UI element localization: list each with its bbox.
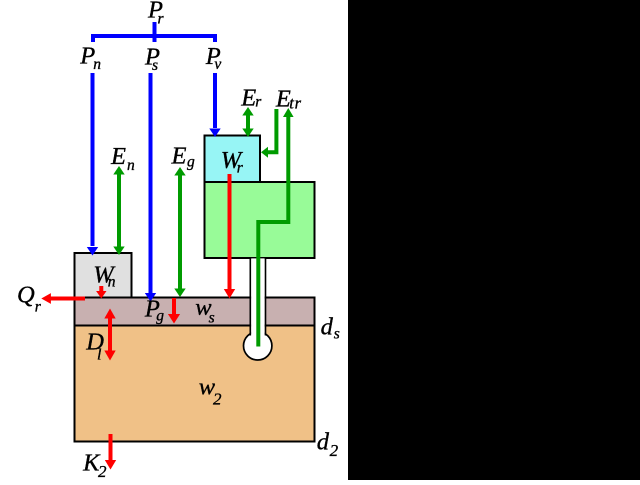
vegetation box (light green) — [205, 182, 315, 258]
svg-text:2: 2 — [330, 441, 339, 460]
Pv blue arrow — [213, 73, 217, 128]
green elbow into Wr box — [267, 109, 276, 152]
soil layer ws (mauve) — [75, 298, 315, 326]
D1 red double arrow — [108, 317, 112, 352]
blue bracket horizontal — [91, 34, 217, 38]
svg-text:v: v — [214, 56, 221, 73]
svg-text:l: l — [97, 347, 102, 364]
root tube right wall — [265, 258, 267, 336]
svg-text:2: 2 — [213, 389, 222, 408]
svg-text:2: 2 — [98, 462, 107, 480]
svg-text:Q: Q — [17, 282, 35, 309]
svg-text:r: r — [35, 299, 42, 316]
bracket middle stub — [153, 36, 157, 42]
svg-text:g: g — [187, 154, 195, 171]
Er double arrow — [246, 113, 250, 130]
Eg double arrow — [178, 174, 182, 290]
En double arrow — [117, 173, 121, 248]
red arrow from Wr down to ws — [228, 174, 232, 290]
svg-text:E: E — [240, 85, 256, 112]
svg-text:r: r — [158, 11, 165, 28]
Qr red arrow (left) — [51, 297, 86, 301]
root bulb circle — [244, 332, 272, 360]
arrowhead into Wr (left) — [261, 147, 268, 158]
interception store box Wr (cyan) — [205, 136, 261, 183]
svg-text:d: d — [321, 314, 334, 341]
svg-text:E: E — [110, 143, 126, 170]
small red arrow below Wn — [99, 286, 103, 291]
svg-text:n: n — [127, 157, 135, 174]
svg-text:g: g — [156, 308, 164, 325]
svg-text:d: d — [317, 429, 330, 456]
black side panel — [348, 0, 640, 480]
green transpiration path from root bulb up to Etr arrow — [258, 116, 288, 347]
bracket left stub — [91, 36, 95, 42]
svg-text:tr: tr — [289, 93, 302, 112]
svg-text:s: s — [152, 57, 158, 74]
K2 red arrow — [109, 434, 113, 460]
bracket right stub — [213, 36, 217, 42]
Pn blue arrow — [91, 73, 95, 246]
svg-text:E: E — [171, 143, 187, 170]
Ps blue arrow — [149, 73, 153, 293]
svg-text:r: r — [255, 94, 262, 111]
root tube left wall — [249, 258, 251, 336]
svg-text:s: s — [209, 310, 215, 327]
Etr arrowhead (up) — [283, 108, 294, 117]
svg-text:n: n — [108, 273, 116, 290]
svg-text:r: r — [237, 160, 244, 177]
snow store box Wn (grey) — [75, 253, 132, 298]
blue bracket: Pr tick — [153, 22, 157, 36]
root tube (white channel through ws, opening into bulb) — [251, 258, 265, 338]
svg-text:n: n — [93, 56, 101, 73]
red arrow inside ws below Eg — [172, 298, 176, 315]
soil layer w2 (tan) — [75, 326, 315, 442]
svg-text:s: s — [334, 325, 340, 342]
